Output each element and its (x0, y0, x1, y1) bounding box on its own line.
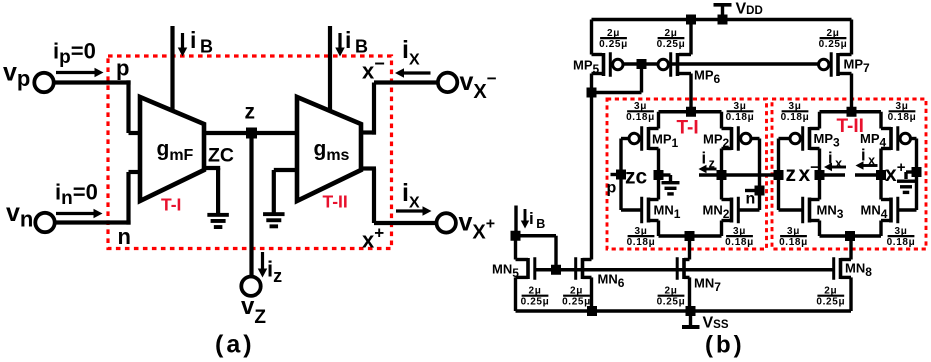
svg-text:in=0: in=0 (55, 180, 98, 210)
svg-text:(b): (b) (705, 332, 745, 359)
svg-text:vX+: vX+ (459, 209, 496, 244)
svg-text:MN5: MN5 (492, 262, 519, 281)
svg-text:MP2: MP2 (703, 132, 730, 151)
svg-text:0.18μ: 0.18μ (888, 112, 917, 123)
svg-text:vp: vp (3, 59, 30, 92)
svg-text:ip=0: ip=0 (53, 39, 96, 69)
svg-text:MN1: MN1 (654, 203, 681, 222)
svg-text:0.25μ: 0.25μ (521, 296, 550, 307)
svg-text:MP6: MP6 (694, 68, 721, 87)
svg-text:i B: i B (190, 27, 213, 57)
svg-text:0.18μ: 0.18μ (779, 237, 808, 248)
svg-text:MN7: MN7 (694, 276, 721, 295)
svg-text:x−: x− (362, 54, 385, 84)
svg-text:iz: iz (267, 257, 282, 287)
svg-text:zc: zc (625, 166, 648, 189)
svg-text:z: z (786, 163, 797, 186)
svg-text:0.18μ: 0.18μ (726, 112, 755, 123)
svg-text:ZC: ZC (208, 145, 234, 167)
svg-text:vX−: vX− (460, 68, 497, 103)
svg-text:i B: i B (345, 27, 368, 57)
svg-text:0.18μ: 0.18μ (725, 237, 754, 248)
svg-text:VSS: VSS (703, 315, 729, 332)
svg-text:(a): (a) (215, 331, 255, 359)
svg-text:MN4: MN4 (861, 203, 888, 222)
svg-text:0.18μ: 0.18μ (781, 112, 810, 123)
svg-text:T-I: T-I (677, 118, 699, 139)
svg-text:0.25μ: 0.25μ (819, 39, 848, 50)
svg-text:i x: i x (828, 150, 842, 171)
svg-text:0.18μ: 0.18μ (627, 237, 656, 248)
svg-text:0.18μ: 0.18μ (887, 237, 916, 248)
svg-text:vn: vn (6, 199, 33, 232)
svg-text:0.18μ: 0.18μ (626, 112, 655, 123)
svg-text:x−: x− (799, 159, 820, 186)
svg-text:0.25μ: 0.25μ (657, 296, 686, 307)
svg-text:MN3: MN3 (817, 203, 844, 222)
svg-text:i z: i z (702, 150, 715, 171)
svg-text:z: z (245, 101, 256, 124)
svg-text:n: n (746, 191, 756, 208)
svg-text:MN2: MN2 (703, 203, 730, 222)
svg-text:T-I: T-I (161, 195, 181, 215)
svg-text:MN6: MN6 (598, 272, 625, 291)
svg-text:0.25μ: 0.25μ (562, 296, 591, 307)
svg-text:vZ: vZ (241, 293, 266, 328)
svg-text:p: p (116, 56, 129, 81)
svg-text:T-II: T-II (837, 116, 864, 137)
svg-text:0.25μ: 0.25μ (816, 296, 845, 307)
svg-text:i x: i x (861, 147, 875, 168)
svg-text:iX: iX (402, 179, 420, 212)
svg-text:VDD: VDD (736, 1, 763, 18)
svg-text:i B: i B (529, 209, 545, 231)
svg-text:iX: iX (402, 36, 420, 69)
svg-text:T-II: T-II (323, 192, 348, 212)
svg-text:n: n (118, 224, 131, 249)
svg-text:p: p (607, 180, 617, 197)
svg-text:MP5: MP5 (573, 58, 600, 77)
svg-text:0.25μ: 0.25μ (599, 39, 628, 50)
svg-text:0.25μ: 0.25μ (657, 39, 686, 50)
